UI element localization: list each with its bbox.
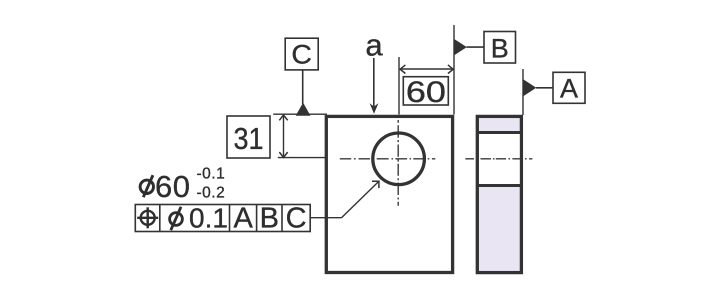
datum C box xyxy=(285,38,318,70)
31 arrow up xyxy=(279,115,287,120)
svg-text:C: C xyxy=(286,203,307,235)
hole circle xyxy=(373,133,425,185)
svg-text:-0.2: -0.2 xyxy=(197,185,226,202)
phi symbol in FCF xyxy=(170,207,183,230)
datum A leader xyxy=(536,87,553,89)
60 box xyxy=(403,77,448,105)
side view hole top line xyxy=(477,131,521,134)
svg-text:B: B xyxy=(491,34,509,64)
extension line for 60 (hole center, above part) xyxy=(398,57,400,115)
FCF divider 2 xyxy=(229,205,231,232)
datum C triangle xyxy=(296,103,311,116)
FCF leader arrowhead xyxy=(372,181,379,188)
side view body (lavender) xyxy=(477,116,521,272)
datum B leader xyxy=(467,46,485,48)
FCF leader horizontal xyxy=(310,217,341,219)
svg-text:B: B xyxy=(260,203,279,235)
extension line center (31 dim) xyxy=(278,157,327,159)
datum A box xyxy=(553,72,585,103)
svg-text:31: 31 xyxy=(234,121,264,156)
FCF divider 3 xyxy=(256,205,258,232)
extension line top (31 dim) xyxy=(273,113,327,115)
a leader line xyxy=(373,58,375,107)
position symbol xyxy=(137,207,158,228)
phi60 symbol xyxy=(140,175,153,197)
svg-text:A: A xyxy=(560,73,578,103)
side view hole band (white) xyxy=(479,134,520,184)
svg-text:60: 60 xyxy=(155,169,190,204)
a arrowhead (filled dart) xyxy=(370,103,379,114)
datum C leader xyxy=(302,70,304,104)
vertical centerline xyxy=(397,120,399,206)
feature control frame outer box xyxy=(135,205,310,232)
31 box xyxy=(227,116,270,158)
horizontal centerline (side view) xyxy=(465,158,532,160)
datum B triangle xyxy=(454,39,467,55)
svg-text:C: C xyxy=(291,40,312,70)
svg-text:A: A xyxy=(234,203,254,235)
60 arrow right xyxy=(448,65,453,74)
datum A triangle xyxy=(523,79,536,96)
svg-text:-0.1: -0.1 xyxy=(197,166,226,183)
svg-text:a: a xyxy=(365,27,383,62)
extension line for datum A xyxy=(522,69,524,115)
31 arrow down xyxy=(279,152,287,157)
datum B box xyxy=(484,32,516,64)
31 dimension line xyxy=(283,115,285,157)
FCF divider 4 xyxy=(281,205,283,232)
front view outline xyxy=(326,116,452,272)
extension line for 60 (right edge / datum B) xyxy=(453,25,455,115)
FCF divider 1 xyxy=(159,205,161,232)
side view hole bottom line xyxy=(477,184,521,187)
60 arrow left xyxy=(400,65,405,74)
60 dimension line xyxy=(400,68,453,70)
FCF leader diagonal xyxy=(342,181,379,217)
horizontal centerline (front view) xyxy=(340,158,436,160)
svg-text:0.1: 0.1 xyxy=(189,202,228,233)
svg-text:60: 60 xyxy=(406,76,446,109)
